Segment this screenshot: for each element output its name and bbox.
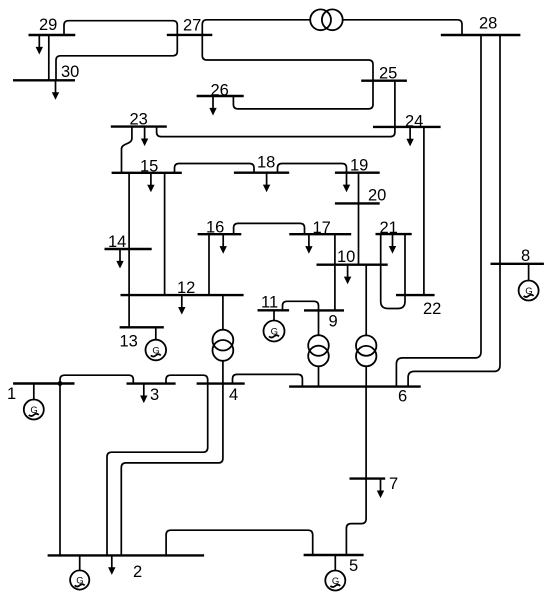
load arrow bus 30 [52, 80, 59, 100]
wire 23-15 [122, 127, 132, 173]
wire 29-30 [48, 35, 50, 80]
wire T2-6 [365, 366, 367, 386]
wire T-6 left [318, 366, 320, 386]
bus 29 [29, 34, 76, 36]
svg-text:14: 14 [108, 233, 126, 251]
svg-text:15: 15 [140, 157, 158, 175]
bus 4 [197, 382, 245, 384]
bus 30 [13, 79, 75, 81]
svg-text:10: 10 [337, 248, 355, 266]
generator G bus 2 [70, 555, 89, 589]
bus 6 [289, 385, 421, 387]
bus 3 [127, 382, 176, 384]
svg-text:6: 6 [398, 388, 407, 406]
svg-text:8: 8 [521, 247, 530, 265]
wire 16-12 [208, 234, 210, 295]
load arrow bus 12 [178, 295, 185, 315]
wire 10-T2 [365, 265, 367, 336]
generator G bus 1 [24, 384, 44, 420]
load arrow bus 24 [406, 127, 413, 146]
transformer T 12-4 [213, 330, 234, 351]
load arrow bus 17 [305, 234, 312, 254]
svg-text:25: 25 [379, 65, 397, 83]
svg-text:23: 23 [130, 111, 148, 129]
wire 15-18 [175, 164, 255, 173]
svg-text:19: 19 [350, 156, 368, 174]
wire 27-25-26 [202, 35, 373, 109]
generator G bus 11 [264, 310, 285, 341]
svg-text:29: 29 [39, 16, 57, 34]
load arrow bus 23 [141, 127, 148, 147]
load arrow bus 14 [116, 249, 123, 269]
wire T3-4-2 [121, 361, 223, 556]
bus 28 [441, 34, 521, 36]
svg-text:28: 28 [479, 15, 497, 33]
bus 26 [197, 95, 244, 97]
wire 28-8-6 [408, 35, 500, 387]
svg-text:30: 30 [61, 63, 79, 81]
bus 20 [335, 202, 380, 204]
bus 16 [198, 233, 242, 235]
wire 19-20-10 [358, 173, 360, 265]
wire 11-9 [283, 301, 319, 335]
wire 18-19 [278, 164, 347, 173]
generator G bus 5 [325, 555, 345, 591]
wire 15-12 [164, 173, 166, 295]
bus 14 [105, 248, 152, 250]
bus 23 [111, 125, 167, 127]
bus 2 [48, 554, 205, 556]
svg-text:18: 18 [257, 154, 275, 172]
wire 6-7-5 [346, 387, 366, 555]
load arrow bus 3 [140, 384, 147, 404]
svg-text:2: 2 [133, 563, 142, 581]
load arrow bus 19 [343, 173, 350, 193]
bus 7 [350, 477, 386, 479]
wire 16-17 [234, 223, 305, 234]
load arrow bus 29 [36, 35, 43, 55]
bus 19 [335, 171, 380, 173]
bus 11 [258, 309, 290, 311]
svg-text:17: 17 [313, 219, 331, 237]
bus 15 [112, 172, 182, 174]
bus 13 [120, 326, 164, 328]
wire 28-6 [396, 35, 481, 387]
wire 1-2 [59, 384, 61, 556]
bus 18 [234, 171, 289, 173]
svg-text:3: 3 [150, 386, 159, 404]
svg-text:12: 12 [177, 279, 195, 297]
junction node bus1 [58, 381, 63, 386]
load arrow bus 26 [209, 96, 216, 116]
svg-text:20: 20 [368, 187, 386, 205]
load arrow bus 2 [108, 555, 115, 575]
svg-text:24: 24 [405, 112, 423, 130]
wire 17-10-9 [334, 234, 336, 310]
svg-text:16: 16 [206, 219, 224, 237]
bus 10 [317, 264, 388, 266]
wire 15-14-12-13 [128, 173, 130, 327]
bus 9 [304, 309, 344, 311]
load arrow bus 18 [263, 173, 270, 193]
svg-text:9: 9 [329, 313, 338, 331]
load arrow bus 21 [389, 234, 396, 254]
wire 1-3 [60, 375, 133, 383]
svg-text:7: 7 [389, 475, 398, 493]
wire 29-27-30 [56, 21, 177, 81]
wire 24-22 [423, 127, 425, 295]
transformer T 27-28 [310, 9, 331, 30]
svg-text:13: 13 [120, 333, 138, 351]
bus 24 [373, 126, 441, 128]
svg-text:27: 27 [183, 17, 201, 35]
bus 5 [304, 554, 364, 556]
bus 25 [361, 79, 407, 81]
svg-text:5: 5 [349, 557, 358, 575]
wire 21-10-22 loop [381, 234, 405, 308]
svg-text:1: 1 [7, 385, 16, 403]
load arrow bus 10 [344, 265, 351, 285]
wire 3-4-2 [107, 375, 208, 555]
svg-text:26: 26 [211, 82, 229, 100]
load arrow bus 7 [377, 479, 384, 499]
generator G bus 8 [519, 264, 539, 301]
bus 12 [121, 294, 244, 296]
bus 1 [13, 382, 74, 384]
load arrow bus 15 [147, 173, 154, 193]
load arrow bus 16 [220, 234, 227, 254]
svg-text:4: 4 [229, 386, 238, 404]
transformer T 10-6 [356, 335, 376, 355]
svg-text:21: 21 [380, 219, 398, 237]
bus 27 [167, 34, 213, 36]
bus 17 [289, 233, 351, 235]
svg-text:11: 11 [261, 294, 278, 312]
generator G bus 13 [146, 327, 167, 360]
bus 21 [376, 233, 412, 235]
wire 4-6 [233, 374, 303, 386]
svg-text:22: 22 [423, 300, 441, 318]
wire 12-T3 [222, 295, 224, 330]
bus 8 [491, 263, 544, 265]
wire 25-24-23 [157, 81, 395, 137]
wire 2-5 [166, 530, 313, 555]
transformer T 9-6 [308, 335, 329, 356]
wire transformer-28 [343, 20, 463, 35]
wire 27-transformer left [202, 20, 310, 35]
bus 22 [396, 294, 435, 296]
